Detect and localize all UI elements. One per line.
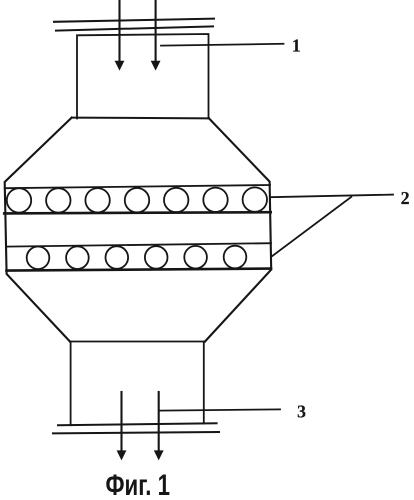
tube row 2 bottom line [7, 269, 272, 271]
leader line to label 3 [160, 409, 281, 410]
svg-text:2: 2 [401, 188, 410, 208]
top flange line lower [56, 26, 213, 30]
inlet arrow left [115, 0, 125, 71]
inlet pipe [77, 34, 209, 119]
inlet arrow right [151, 0, 161, 71]
outlet pipe [70, 341, 205, 343]
svg-text:3: 3 [297, 402, 306, 422]
outlet arrow left [117, 392, 127, 460]
leader line to label 1 [161, 44, 284, 46]
leader fork to label 2 (lower leg) [272, 197, 351, 256]
tube row 2 circles [27, 246, 247, 269]
leader fork to label 2 (upper leg) [271, 195, 394, 198]
top flange line upper [54, 19, 214, 22]
tube row 1 top line [5, 185, 270, 188]
tube row 1 bottom line [4, 212, 271, 213]
tube row 1 circles [7, 187, 267, 212]
outlet arrow right [154, 392, 164, 460]
bottom flange line upper [58, 423, 217, 425]
vessel shell [72, 117, 209, 120]
tube row 2 top line [6, 243, 271, 246]
svg-text:1: 1 [292, 36, 301, 56]
bottom flange line lower [53, 432, 219, 433]
svg-text:Фиг. 1: Фиг. 1 [106, 469, 171, 500]
